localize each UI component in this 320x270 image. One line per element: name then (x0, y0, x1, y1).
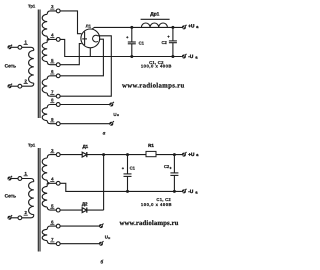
svg-text:2: 2 (25, 210, 28, 215)
svg-text:Сеть: Сеть (5, 193, 17, 199)
svg-text:2: 2 (25, 79, 28, 84)
svg-text:С2: С2 (161, 40, 167, 45)
svg-text:С1: С1 (130, 165, 136, 170)
svg-text:3: 3 (51, 148, 54, 153)
svg-text:-U: -U (188, 189, 194, 194)
svg-text:б: б (100, 260, 103, 266)
svg-text:1: 1 (25, 40, 28, 45)
svg-text:Тр1: Тр1 (28, 142, 36, 147)
svg-text:-U: -U (188, 54, 194, 59)
svg-text:Д2: Д2 (82, 202, 88, 207)
svg-text:1: 1 (25, 171, 28, 176)
svg-text:4: 4 (51, 33, 54, 38)
svg-text:Д1: Д1 (82, 144, 88, 149)
svg-text:4: 4 (51, 177, 54, 182)
svg-text:Л1: Л1 (86, 23, 92, 28)
svg-text:а: а (195, 190, 198, 194)
svg-text:3: 3 (51, 4, 54, 9)
svg-text:а: а (195, 55, 198, 59)
svg-text:100,0 х 400В: 100,0 х 400В (141, 64, 172, 69)
svg-text:+U: +U (188, 152, 195, 157)
svg-text:а: а (103, 130, 106, 136)
svg-text:С2: С2 (164, 164, 170, 169)
svg-text:н: н (117, 113, 119, 117)
svg-text:Тр1: Тр1 (28, 3, 36, 8)
svg-text:Др1: Др1 (150, 12, 159, 18)
svg-text:5: 5 (51, 58, 54, 63)
svg-text:а: а (196, 25, 199, 29)
svg-text:100,0 х 400В: 100,0 х 400В (141, 202, 172, 207)
svg-text:www.radiolamps.ru: www.radiolamps.ru (119, 220, 178, 227)
svg-text:Сеть: Сеть (5, 63, 17, 69)
svg-text:R1: R1 (148, 143, 154, 148)
svg-text:5: 5 (51, 203, 54, 208)
svg-text:н: н (108, 236, 110, 240)
svg-text:а: а (196, 153, 199, 157)
svg-text:8: 8 (51, 98, 54, 103)
svg-text:7: 7 (51, 237, 54, 242)
svg-text:+U: +U (188, 24, 195, 29)
svg-text:6: 6 (51, 219, 54, 224)
svg-text:7: 7 (51, 89, 54, 94)
svg-text:С1: С1 (139, 40, 145, 45)
svg-text:6: 6 (51, 69, 54, 74)
svg-text:9: 9 (51, 117, 54, 122)
svg-text:www.radiolamps.ru: www.radiolamps.ru (122, 82, 185, 89)
